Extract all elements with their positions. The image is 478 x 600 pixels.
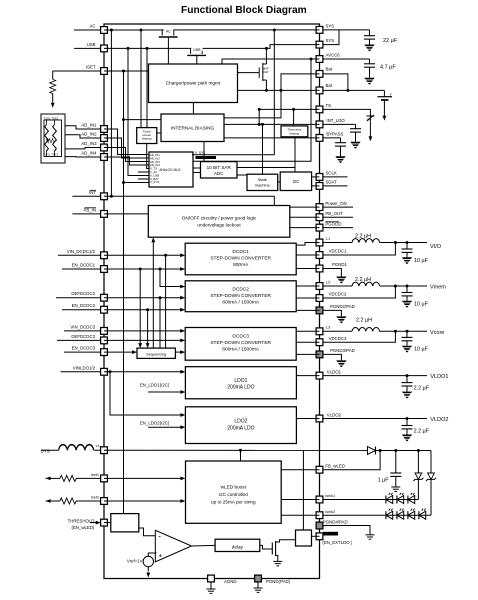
capacitor on BYPASS [340,138,342,143]
svg-text:2.2 µH: 2.2 µH [356,318,372,324]
wire touch to AD_IN3 [65,148,104,149]
svg-text:isink2: isink2 [325,510,335,514]
wire BAT FET drain to USB/SYS rail [265,48,267,64]
wire VIN_DCDC1/2 lead [58,254,104,256]
svg-text:200mA LDO: 200mA LDO [227,385,254,391]
svg-text:AC: AC [166,29,171,33]
capacitor 22uF on SYS [369,30,371,36]
wire THRESHOLD pin to block [104,522,111,524]
wire Power_ON out [320,206,354,208]
wire wLED to FB_wLED pin [281,469,319,471]
wire ON/OFF outputs to pins [290,206,320,208]
wire DCDC3 to L3/VDCDC3/PGND3 [296,330,319,332]
svg-text:Vcore: Vcore [430,330,444,336]
svg-text:EN_LDO1(I2C): EN_LDO1(I2C) [140,382,170,387]
ground PGND2 [336,316,346,323]
wire VINLDO vertical to LDO2 [109,370,112,373]
wire mux V_AC stub [138,171,149,173]
svg-text:Bat: Bat [326,66,333,71]
svg-text:DCDC2: DCDC2 [232,286,249,292]
svg-text:AD_IN2: AD_IN2 [81,132,97,137]
ground PGND4 [366,535,375,539]
wire Bat2 rail inside [238,89,320,91]
wire USB lead [74,47,104,49]
wire TS rail inside [259,108,319,110]
wire PB_IN lead [72,213,104,215]
pin AD_IN1 [101,126,108,133]
svg-text:PGND3/PAD: PGND3/PAD [330,348,355,353]
wire touch to AD_IN2 [65,135,104,138]
pin L3 [316,328,323,335]
svg-text:SCLK: SCLK [326,170,337,175]
svg-text:800mA / 1500mA: 800mA / 1500mA [222,299,260,305]
pin L4 [101,447,108,454]
thermistor on TS [366,115,374,122]
mux input pin labels [150,153,160,184]
wire boost output node [376,450,432,452]
svg-text:PGND2/PAD: PGND2/PAD [330,304,355,309]
pin AD_IN2 [101,135,108,142]
wire VIN vertical to DCDC2 [164,254,167,257]
diode D1 boost rectifier [368,447,376,455]
capacitor 2.2uF on VLDO1 [406,376,408,383]
wire FET source to ground [276,556,278,562]
pin VDCDC2 [316,295,323,302]
pin ISET [101,68,108,75]
svg-text:10 µF: 10 µF [414,258,429,264]
wire VLDO1 out [320,375,428,377]
pin PGND1 [316,265,323,272]
battery symbol [383,90,385,96]
wire DEFDCDC2 lead [56,297,104,299]
wire INT to ON/OFF [104,196,274,205]
wire EN_DCDC2 vertical to sequencing [146,308,149,311]
block LDO1 200mA [185,367,296,399]
wire iset1 into wLED [104,477,181,479]
pin Bat (2) [316,87,323,94]
svg-text:biasing: biasing [290,131,300,135]
svg-text:2.2 µH: 2.2 µH [355,277,371,283]
touch screen panel [41,114,65,163]
svg-text:+: + [159,554,162,560]
wire VDCDC1 feedback [320,243,396,256]
wire EN_DCDC1 into DCDC1 [104,268,181,270]
svg-text:AD_IN4: AD_IN4 [81,151,97,156]
svg-text:undervoltage lockout: undervoltage lockout [197,223,241,228]
wire AD_IN3 to mux [104,148,149,162]
pin FB_wLED [316,466,323,473]
pin USB [101,45,108,52]
svg-text:L1: L1 [326,237,330,241]
svg-text:LDO2: LDO2 [234,418,247,424]
svg-text:VDCDC1: VDCDC1 [329,249,347,254]
pin INT_LDO [316,121,323,128]
wire Bat1 inside jog to biasing [224,74,320,118]
wire SYS1 out [320,29,370,31]
svg-text:-: - [159,535,161,541]
svg-text:INTERNAL BIASING: INTERNAL BIASING [171,126,215,131]
svg-text:ANALOG MUX: ANALOG MUX [159,168,181,172]
wire DEFDCDC2 into DCDC2 [104,297,181,299]
svg-text:PB_OUT: PB_OUT [325,211,343,216]
pin ISET1 [101,475,108,482]
pin AVCC6 [316,56,323,63]
wire SCLK out [320,176,348,178]
svg-text:isink1: isink1 [325,494,335,498]
wire SYS2 out joins SYS1 [320,30,340,45]
wire TS out [320,109,371,114]
block ANALOG MUX [149,152,193,187]
svg-text:10 µF: 10 µF [414,302,429,308]
svg-text:FB_wLED: FB_wLED [325,463,345,468]
inductor L2 2.2uH [320,285,353,287]
wire PGOOD out [320,227,354,229]
svg-text:EN_DCDC1: EN_DCDC1 [72,263,96,268]
wire comparator to delay [192,544,216,547]
pin SYS [316,27,323,34]
svg-text:10 BIT SAR: 10 BIT SAR [207,165,232,170]
pin TS [316,106,323,113]
node V_BAT_USB sense line (redacted) [196,156,217,159]
resistor iset2 [46,499,51,503]
wire ISET long vertical [123,71,125,514]
wire LDO2 to VLDO2 pin [296,418,319,420]
wire VINLDO1/2 into LDO1 [104,371,181,373]
svg-text:SYS: SYS [326,23,335,28]
wire biasing to ADC [203,142,205,163]
svg-text:STEP-DOWN CONVERTER: STEP-DOWN CONVERTER [210,256,271,262]
svg-text:delay: delay [232,544,244,549]
svg-text:VLDO1: VLDO1 [430,374,448,380]
wire PGND4 to ground [320,526,371,535]
wire ISINK1 string [320,499,419,501]
ground PGND [254,588,263,592]
svg-text:EN_DCDC2: EN_DCDC2 [72,303,96,308]
wire ISET lead [53,70,104,72]
wire TS to thermistor biasing [293,109,295,126]
pin L1 [316,239,323,246]
ground PGND1 [336,277,346,284]
wire USB FET gate to charger [196,55,198,64]
svg-text:PGND4/PAD: PGND4/PAD [323,520,348,525]
wire charger bottom to biasing [192,103,194,115]
svg-text:Power_ON: Power_ON [325,201,346,206]
block sequencing [137,348,175,358]
svg-text:DCDC1: DCDC1 [232,249,249,255]
svg-text:VDCDC3: VDCDC3 [329,336,347,341]
svg-text:LDO1: LDO1 [234,378,247,384]
op-amp U1 comparator [155,530,191,562]
svg-text:AD_IN1: AD_IN1 [81,123,97,128]
wire EN_DCDC3 lead [64,351,104,353]
block delay [215,539,260,551]
ground PGND3 [336,360,346,367]
wire PGND3 to ground [320,354,342,360]
svg-text:AGND: AGND [224,579,237,584]
wire VDCDC3 feedback [320,331,396,342]
wire sequencing to ON/OFF vertical [151,237,155,242]
wire AD_IN4 to mux [104,157,149,165]
svg-text:(EN_wLED): (EN_wLED) [71,525,94,530]
IC main box [104,24,320,579]
wire wLED to ISINK1 pin [281,499,319,501]
pin SYS (2) [316,41,323,48]
wire VINLDO1/2 lead [61,371,105,373]
block DCDC2 step-down converter [185,281,296,312]
wire BYPASS out [320,137,341,139]
pin SDAT [316,183,323,190]
svg-text:ADC: ADC [214,171,224,176]
zener Z2 string 2 [430,451,432,474]
svg-text:VDCDC2: VDCDC2 [329,292,347,297]
wire mux V_BAT stub [138,178,149,180]
pin THRESHOLD [101,519,108,526]
svg-text:+: + [390,92,393,97]
wire PGND1 to ground [320,269,342,277]
block 10 BIT SAR ADC [201,162,238,178]
svg-text:DCDC3: DCDC3 [232,334,249,340]
svg-text:AC: AC [89,24,95,29]
svg-text:VLDO2: VLDO2 [327,413,342,418]
transistor Q1 AC switch [159,28,178,37]
svg-text:VLDO1: VLDO1 [327,370,342,375]
wire state machine to I2C [278,181,281,183]
wire INT_LDO out [320,123,356,125]
wire DEFDCDC3 lead [57,339,104,341]
svg-text:INT: INT [89,190,96,195]
wire SDAT out [320,185,348,187]
wire LDO1 to VLDO1 pin [296,375,319,377]
wire thermistor biasing down to I2C rail [294,137,296,168]
wire INT lead [72,195,104,197]
svg-text:VI/O: VI/O [430,244,442,250]
wire ISET into charger [104,70,149,72]
capacitor 1uF on boost output [395,451,397,474]
wire AC FET gate to charger [167,38,169,64]
capacitor 2.2uF on VLDO2 [406,419,408,426]
inductor L1 2.2uH [320,242,353,244]
svg-text:wLED boost: wLED boost [221,485,247,490]
svg-text:up to 25mA per string: up to 25mA per string [211,500,256,505]
pin PB_OUT [316,214,323,221]
block INTERNAL BIASING [161,114,224,142]
resistor iset1 [46,477,51,481]
pin VIN_DCDC3 [101,328,108,335]
pin BYPASS [316,135,323,142]
node ISET junction [122,70,125,73]
pin VDCDC3 [316,339,323,346]
pin VDCDC1 [316,252,323,259]
wire AVCC6 out [320,58,370,60]
svg-text:Functional Block Diagram: Functional Block Diagram [181,5,307,16]
inductor L4 external [59,445,94,451]
svg-text:ON/OFF circuitry / power good: ON/OFF circuitry / power good logic [182,216,257,221]
wire DCDC2 to L2/VDCDC2/PGND2 [296,285,319,287]
pin VLDO2 [316,415,323,422]
wire USB to touch bias [146,47,149,50]
pin AD_IN3 [101,144,108,151]
svg-text:STEP-DOWN CONVERTER: STEP-DOWN CONVERTER [210,340,271,346]
svg-text:INT_LDO: INT_LDO [326,118,345,123]
pin PGND2/PAD [316,307,323,314]
wire touch to AD_IN1 [65,126,104,129]
pin EN_EXTLDO (name redacted) [316,533,323,540]
wire touch bias to biasing [157,132,161,134]
wire INT_LDO rail to state machine [261,123,264,126]
wire BYPASS rail from biasing [224,137,320,139]
transistor Q3 BAT FET [238,63,269,81]
svg-text:I2C controlled: I2C controlled [219,492,248,497]
wire INT_LDO rail from biasing [224,123,320,125]
svg-text:DEFDCDC3: DEFDCDC3 [71,334,95,339]
pin EN_DCDC2 [101,306,108,313]
wire ADC to I2C [237,168,295,173]
wire EN_DCDC1 vertical to sequencing [139,268,142,271]
wire VIN_DCDC1/2 into DCDC1 [104,254,181,256]
block DCDC1 step-down converter [185,243,296,275]
pin AGND [208,575,215,582]
svg-text:4.7 µF: 4.7 µF [380,65,396,71]
resistor on ISET to ground [52,71,54,79]
svg-text:(EN_EXTLDO ): (EN_EXTLDO ) [322,540,352,545]
capacitor 10uF on VI/O [406,243,408,250]
svg-text:Vref=1V: Vref=1V [127,559,143,564]
pin ISINK1 [316,496,323,503]
wire EN_DCDC1 branch into DCDC2 [159,268,162,271]
svg-text:EN_DCDC3: EN_DCDC3 [72,346,96,351]
block ext LDO interface [296,530,312,546]
svg-text:1 µF: 1 µF [378,478,390,484]
svg-text:USB: USB [193,48,201,52]
inductor L3 2.2uH [320,330,353,332]
pin L2 [316,283,323,290]
wire DEFDCDC3 into DCDC3 [104,339,181,341]
pin ISINK2 [316,512,323,519]
svg-text:PB_IN: PB_IN [83,208,96,213]
wire mux V_SYS stub [122,181,125,184]
svg-text:I2C: I2C [293,179,300,184]
wire DCDC1 to L1/VDCDC1/PGND1 [296,243,319,246]
wire delay to FET gate [260,545,273,549]
pin VLDO1 [316,372,323,379]
svg-text:FET: FET [263,70,269,74]
capacitor on INT_LDO [355,124,357,128]
wire SYS lead to L4 [41,449,59,451]
pin EN_DCDC3 [101,349,108,356]
pin INT (active low) [101,193,108,200]
wire ISINK2 string [320,514,432,516]
wire PB_IN to ON/OFF [104,213,148,215]
svg-text:Sequencing: Sequencing [146,352,166,356]
svg-text:SYS: SYS [41,448,50,453]
svg-text:VIN_DCDC3: VIN_DCDC3 [70,324,95,329]
wire AD_IN1 to mux [104,129,149,155]
svg-text:AD_IN3: AD_IN3 [81,141,97,146]
pin VIN_DCDC1/2 [101,252,108,259]
wire TS to INT_LDO rail [258,109,260,124]
wire EN_DCDC2 lead [62,309,104,311]
pin PGND(PAD) [255,575,262,582]
svg-text:2.2 µF: 2.2 µF [414,386,430,392]
svg-text:ISET: ISET [86,65,96,70]
svg-text:PGND(PAD): PGND(PAD) [266,579,291,584]
svg-text:PGND1: PGND1 [332,262,348,267]
wire AVCC6 rail from charger [222,59,320,64]
wire VIN_DCDC3 lead [64,330,104,332]
zener Z1 string 1 [417,451,419,474]
wire I2C to SCLK [312,176,320,178]
wire L4 rail down to ext LDO box [302,450,304,530]
wire USB node down to mux [127,47,130,50]
wire FET drain to ext box [276,540,297,542]
pin ISET2 [101,498,108,505]
wire AC to touch bias [140,29,143,32]
wire BAT FET source to Bat rail [265,80,267,90]
transistor Q2 USB switch [187,47,206,56]
wire mux to ADC [193,167,201,169]
capacitor 10uF on Vmem [406,286,408,293]
svg-text:Charger/power path mgmt: Charger/power path mgmt [166,80,221,85]
wire USB rail to SYS [104,45,320,49]
svg-text:10 µF: 10 µF [414,346,429,352]
pin DEFDCDC3 [101,337,108,344]
svg-text:TS: TS [326,103,332,108]
wire EN_DCDC1 lead [62,268,104,270]
block I2C [280,172,311,191]
block touch screen biasing [137,128,157,144]
capacitor 10uF on Vcore [406,331,408,337]
wire FB_wLED to boost output [320,451,381,470]
block wLED boost [186,461,282,523]
svg-text:L2: L2 [326,281,330,285]
block charger/power path mgmt [149,64,238,103]
block ON/OFF circuitry [148,206,289,238]
wire Bat1 out joins Bat2 [320,74,348,91]
svg-text:EN_LDO2(I2C): EN_LDO2(I2C) [140,420,170,425]
wire VDCDC2 feedback [320,286,396,298]
block threshold detect [111,514,139,532]
svg-text:TSX1 TSX2: TSX1 TSX2 [44,116,59,120]
svg-text:200mA LDO: 200mA LDO [227,425,254,431]
wire sequencing to DCDC3 [175,351,181,353]
block state machine [247,174,278,190]
pin PGND4/PAD [316,522,323,529]
capacitor 4.7uF on AVCC6 [369,59,371,64]
svg-text:BYPASS: BYPASS [326,132,343,137]
wire touch bias to mux [147,144,149,169]
svg-text:Vmem: Vmem [430,285,446,291]
wire AD_IN2 to mux [104,138,149,158]
svg-text:TSY1 TSY2: TSY1 TSY2 [44,152,59,156]
wire to internal biasing left [122,118,125,121]
pin PB_IN (active low) [101,211,108,218]
LED string 1 (3 white LEDs) [386,493,393,504]
pin EN_DCDC1 [101,266,108,273]
ground AGND [207,589,216,593]
transistor Q4 ext LDO enable [272,541,275,556]
wire L4 rail into wLED boost [239,449,242,452]
svg-text:iset1: iset1 [91,473,99,477]
svg-text:SYS: SYS [326,38,335,43]
pin Bat (1) [316,71,323,78]
pin AD_IN4 [101,154,108,161]
wire I2C to SDAT [312,185,320,187]
svg-text:biasing: biasing [142,136,152,140]
pin PGND3/PAD [316,351,323,358]
svg-text:800mA: 800mA [233,262,249,268]
wire iset2 into wLED [104,500,181,502]
svg-text:VLDO2: VLDO2 [430,417,448,423]
